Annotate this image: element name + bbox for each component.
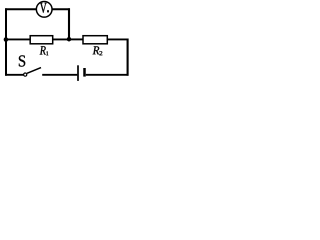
voltmeter V (U1) xyxy=(36,1,52,17)
battery BT1 xyxy=(78,65,85,81)
wire bottom-left to switch xyxy=(5,74,23,76)
node junction dot middle (voltmeter drop / middle wire) xyxy=(67,37,72,42)
wire voltmeter to right corner xyxy=(52,8,70,10)
resistor R2 xyxy=(83,36,107,44)
switch S xyxy=(24,68,41,77)
wire left vertical xyxy=(5,8,7,75)
label R1 xyxy=(40,46,49,55)
wire vertical drop from top wire to middle junction xyxy=(68,8,70,39)
wire middle: left wire to R1 xyxy=(5,38,30,40)
wire top-left horizontal segment xyxy=(5,8,36,10)
wire switch to battery xyxy=(42,74,77,76)
label R2 xyxy=(93,46,103,55)
wire battery to bottom-right xyxy=(86,74,129,76)
wire R2 to right corner xyxy=(107,38,128,40)
resistor R1 xyxy=(30,36,53,44)
label S xyxy=(19,55,25,66)
node junction dot left (left wire / middle wire) xyxy=(4,37,8,42)
wire right vertical xyxy=(127,39,129,76)
wire R1 to junction xyxy=(53,38,69,40)
wire junction to R2 xyxy=(69,38,83,40)
